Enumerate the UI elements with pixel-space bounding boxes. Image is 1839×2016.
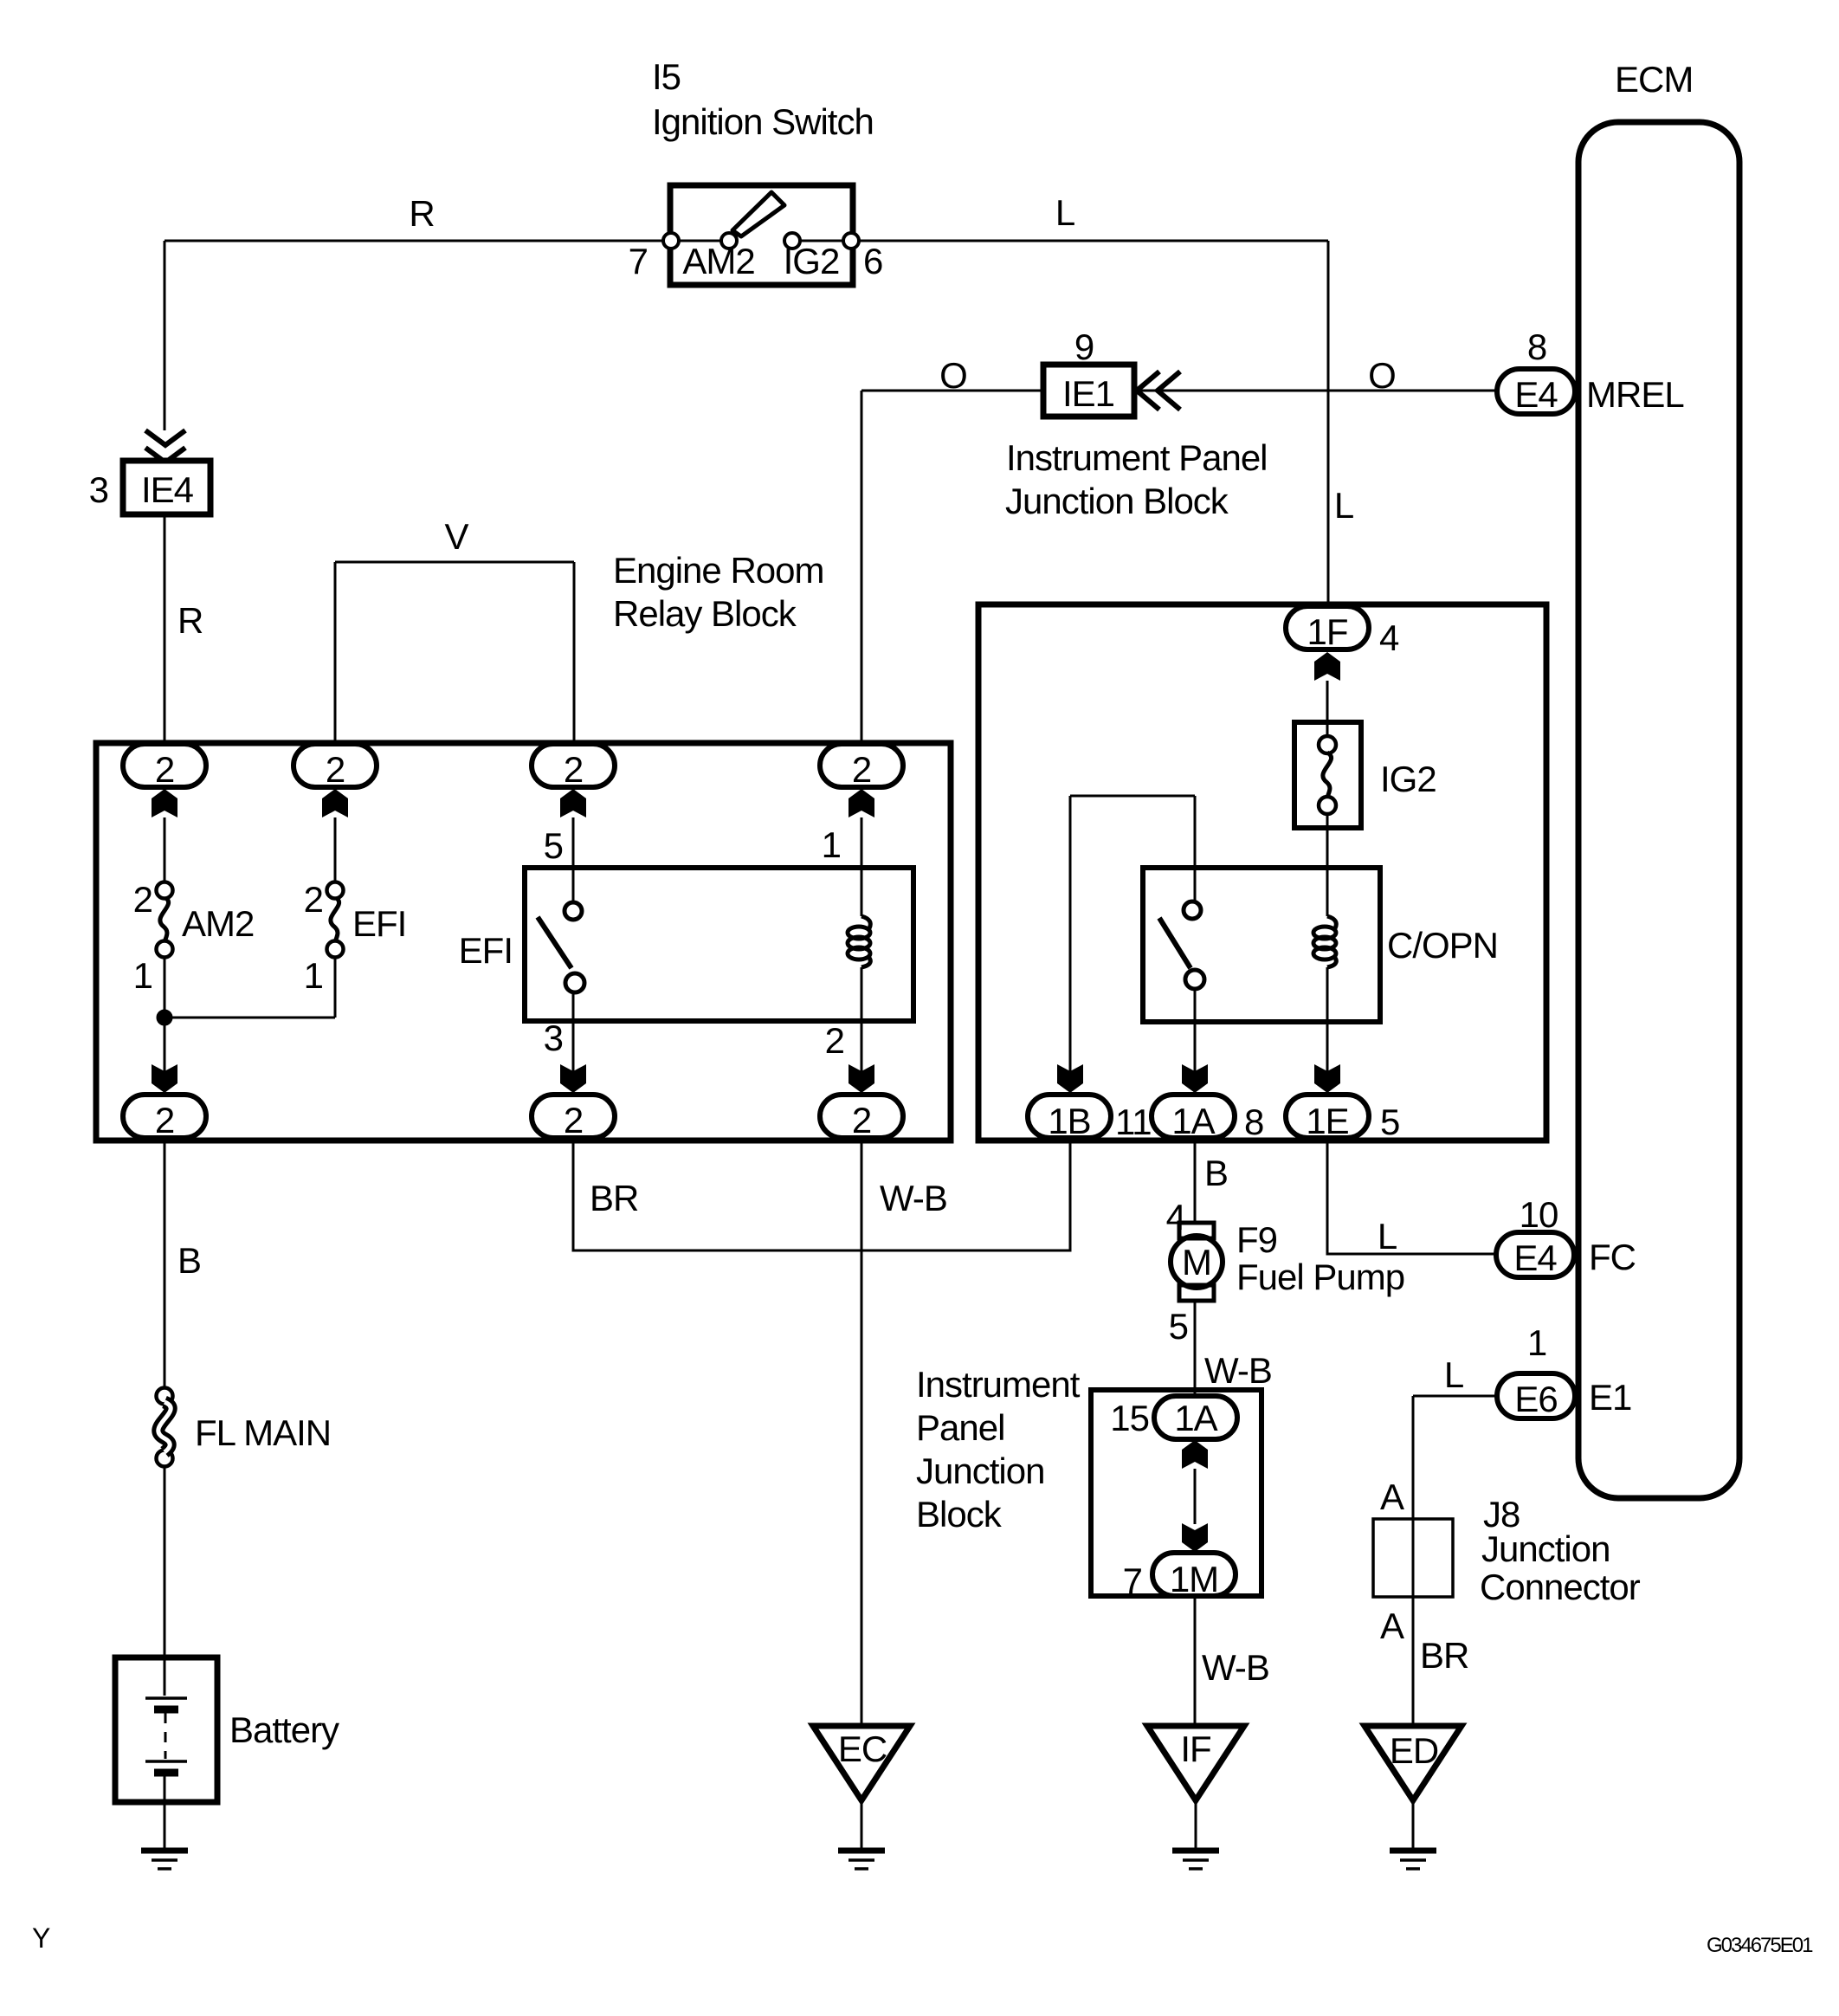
svg-text:2: 2: [155, 749, 174, 790]
arrow up col3: [560, 789, 586, 817]
svg-text:Connector: Connector: [1480, 1567, 1641, 1607]
svg-text:Relay Block: Relay Block: [613, 593, 797, 634]
ground triangle IF: [1147, 1726, 1244, 1800]
svg-text:1M: 1M: [1170, 1559, 1218, 1599]
wire IF to ground: [1195, 1800, 1197, 1848]
relay C/OPN coil: [1313, 916, 1336, 967]
svg-text:A: A: [1380, 1606, 1404, 1646]
pin oval E6 E1: [1497, 1373, 1575, 1418]
ignition switch I5 box: [670, 185, 853, 285]
fuse EFI terminal 1: [327, 941, 344, 958]
svg-text:Junction: Junction: [1481, 1528, 1610, 1569]
svg-text:L: L: [1334, 485, 1353, 526]
svg-text:1: 1: [133, 955, 152, 996]
svg-text:IF: IF: [1180, 1728, 1210, 1769]
svg-text:Battery: Battery: [229, 1709, 339, 1750]
wire O from IE1 to ECM MREL: [1134, 390, 1497, 392]
fuse EFI terminal 2: [327, 882, 344, 899]
svg-text:I5: I5: [652, 56, 681, 97]
wire A through J8: [1412, 1519, 1415, 1597]
svg-text:2: 2: [852, 749, 871, 790]
pin oval E4 FC: [1496, 1232, 1574, 1277]
svg-text:BR: BR: [590, 1178, 638, 1218]
fuse IG2 terminal bottom: [1319, 797, 1336, 814]
wire L E1 to J8: [1413, 1396, 1497, 1519]
wire L 1E to ECM FC: [1327, 1138, 1496, 1254]
wire R from IE4 riser to ignition switch: [165, 240, 670, 242]
arrow up below 1A lower: [1182, 1440, 1208, 1469]
pin oval 2 top col1: [123, 744, 206, 787]
pin oval 2 top col2: [294, 744, 377, 787]
svg-text:IG2: IG2: [784, 241, 840, 281]
svg-text:2: 2: [564, 749, 583, 790]
arrow down col4: [849, 1064, 874, 1093]
svg-text:9: 9: [1074, 326, 1094, 367]
svg-text:3: 3: [544, 1018, 563, 1058]
svg-text:W-B: W-B: [880, 1178, 947, 1218]
svg-text:1A: 1A: [1171, 1101, 1215, 1141]
engine room relay block box: [96, 743, 951, 1140]
wire BR jumper to 1B: [573, 1138, 1070, 1250]
pin oval 1M lower block: [1152, 1553, 1236, 1596]
relay EFI contact top: [565, 902, 582, 920]
svg-text:A: A: [1380, 1476, 1404, 1517]
pin oval 2 bottom col1: [123, 1095, 206, 1138]
arrow up col2: [322, 789, 348, 817]
svg-text:Instrument: Instrument: [916, 1364, 1081, 1405]
fuel pump F9 bottom terminal: [1179, 1285, 1214, 1301]
svg-text:Ignition Switch: Ignition Switch: [652, 101, 874, 142]
ground triangle ED: [1365, 1726, 1462, 1800]
arrow down above 1B: [1057, 1064, 1083, 1093]
svg-text:ECM: ECM: [1615, 59, 1693, 100]
svg-text:AM2: AM2: [182, 903, 254, 944]
wire R riser down-left: [164, 241, 166, 430]
wire inside ignition switch IG2 side: [800, 240, 843, 242]
svg-text:2: 2: [133, 879, 152, 920]
relay C/OPN contact wire to 1A: [1194, 989, 1197, 1095]
svg-text:FL MAIN: FL MAIN: [195, 1412, 331, 1453]
fuse AM2 wires: [164, 817, 166, 1095]
arrow down col3: [560, 1064, 586, 1093]
fuse IG2 wave: [1323, 753, 1332, 798]
svg-text:IG2: IG2: [1380, 759, 1436, 799]
pin oval 2 bottom col4: [820, 1095, 903, 1138]
svg-text:W-B: W-B: [1202, 1647, 1269, 1688]
svg-text:R: R: [409, 193, 434, 234]
fuse AM2 wave: [160, 897, 169, 942]
ground symbol EC: [838, 1851, 885, 1869]
connector chevrons above IE4: [145, 430, 185, 462]
svg-text:7: 7: [629, 241, 648, 281]
fusible link FL MAIN heavy wave: [158, 1402, 171, 1452]
instrument panel junction block right box: [978, 604, 1546, 1140]
wire FL MAIN to battery: [164, 1467, 166, 1657]
svg-text:7: 7: [1123, 1560, 1142, 1601]
relay EFI box: [525, 868, 913, 1021]
svg-text:MREL: MREL: [1586, 374, 1684, 415]
svg-text:15: 15: [1110, 1398, 1149, 1438]
battery plate 1 long: [145, 1696, 187, 1700]
wire inside ignition switch AM2 side: [679, 240, 721, 242]
relay EFI blade: [538, 917, 571, 968]
svg-text:Fuel Pump: Fuel Pump: [1236, 1257, 1404, 1297]
relay C/OPN box: [1143, 868, 1380, 1022]
svg-text:C/OPN: C/OPN: [1387, 925, 1498, 966]
fuse AM2 terminal 1: [157, 941, 173, 958]
svg-text:Block: Block: [916, 1494, 1003, 1535]
wire W-B fuel pump to 1A: [1194, 1301, 1197, 1396]
svg-text:2: 2: [304, 879, 323, 920]
ignition switch terminal AM2: [721, 233, 737, 249]
relay EFI contact bottom: [565, 973, 584, 992]
relay EFI coil: [848, 916, 870, 967]
svg-text:E1: E1: [1589, 1377, 1631, 1418]
arrow down above 1A: [1182, 1064, 1208, 1093]
svg-text:10: 10: [1520, 1194, 1558, 1235]
svg-text:L: L: [1378, 1216, 1397, 1257]
svg-text:Instrument Panel: Instrument Panel: [1006, 437, 1268, 478]
svg-text:Junction Block: Junction Block: [1005, 481, 1229, 521]
svg-text:2: 2: [155, 1100, 174, 1140]
svg-text:EFI: EFI: [352, 903, 406, 944]
battery plate 2 short: [154, 1769, 178, 1777]
svg-text:AM2: AM2: [682, 241, 754, 281]
arrow up col1: [152, 789, 177, 817]
relay C/OPN contact bottom: [1185, 970, 1204, 989]
wire V jumper: [335, 562, 574, 744]
relay C/OPN coil wire to 1E: [1326, 967, 1329, 1095]
pin oval 2 top col3: [532, 744, 615, 787]
svg-text:8: 8: [1527, 326, 1546, 367]
svg-text:11: 11: [1115, 1102, 1152, 1142]
svg-text:Panel: Panel: [916, 1407, 1004, 1448]
battery plate 1 short: [154, 1706, 178, 1714]
svg-text:Engine Room: Engine Room: [613, 550, 823, 591]
svg-text:BR: BR: [1420, 1635, 1468, 1676]
ignition switch lever: [732, 192, 784, 236]
svg-text:Y: Y: [32, 1922, 50, 1954]
svg-text:ED: ED: [1390, 1730, 1438, 1771]
pin oval E4 MREL: [1497, 369, 1575, 414]
ground symbol ED: [1390, 1851, 1436, 1869]
battery box: [115, 1657, 217, 1802]
battery dashed center: [165, 1713, 167, 1759]
fuel pump F9 top terminal: [1179, 1223, 1214, 1238]
svg-text:F9: F9: [1236, 1219, 1277, 1260]
fuse EFI wave: [331, 897, 339, 942]
wire R below IE4: [164, 514, 166, 745]
wire between 1A and 1M: [1194, 1469, 1197, 1524]
arrow down col1: [152, 1064, 177, 1093]
battery plate 2 long: [145, 1760, 187, 1763]
svg-text:4: 4: [1379, 617, 1399, 658]
svg-text:1A: 1A: [1174, 1398, 1217, 1438]
wire B 1A to fuel pump: [1194, 1138, 1197, 1223]
svg-text:FC: FC: [1589, 1237, 1636, 1277]
wire 1F to IG2 fuse: [1326, 681, 1329, 736]
wire EFI fuse to junction dot: [165, 1017, 335, 1019]
connector IE4 box: [123, 461, 210, 514]
svg-text:2: 2: [564, 1100, 583, 1140]
pin oval 2 top col4: [820, 744, 903, 787]
relay EFI coil wires: [861, 817, 863, 1095]
pin oval 1A: [1152, 1095, 1235, 1138]
svg-text:5: 5: [1380, 1102, 1399, 1142]
wire BR J8 to ED ground: [1412, 1597, 1415, 1725]
svg-text:G034675E01: G034675E01: [1707, 1934, 1813, 1957]
relay C/OPN inner wire to 1B: [1070, 796, 1195, 1095]
ground symbol IF: [1172, 1851, 1219, 1869]
svg-text:EC: EC: [838, 1728, 887, 1769]
junction connector J8 box: [1373, 1519, 1453, 1597]
svg-text:M: M: [1182, 1242, 1211, 1283]
battery internal wire top: [164, 1657, 166, 1696]
arrow up below 1F: [1314, 652, 1340, 681]
svg-text:1B: 1B: [1048, 1101, 1090, 1141]
ignition switch terminal 7: [663, 233, 679, 249]
fusible link FL MAIN terminal top: [157, 1388, 173, 1405]
ECM box: [1578, 122, 1739, 1498]
svg-text:2: 2: [326, 749, 345, 790]
svg-text:8: 8: [1244, 1102, 1263, 1142]
svg-text:B: B: [1204, 1153, 1228, 1193]
fuse EFI wires: [334, 817, 337, 1018]
junction dot below AM2: [158, 1011, 171, 1024]
pin oval 1B: [1028, 1095, 1111, 1138]
svg-text:5: 5: [544, 825, 563, 866]
svg-text:5: 5: [1169, 1306, 1188, 1347]
svg-text:E6: E6: [1514, 1379, 1557, 1419]
svg-text:R: R: [177, 600, 203, 641]
wire O from relay block to IE1: [861, 391, 1043, 744]
arrow up col4: [849, 789, 874, 817]
wire EC to ground: [861, 1800, 863, 1848]
svg-text:2: 2: [852, 1100, 871, 1140]
relay EFI contact wires: [572, 817, 575, 1095]
relay C/OPN contact top: [1184, 901, 1201, 919]
svg-text:Junction: Junction: [916, 1451, 1044, 1491]
svg-text:1E: 1E: [1306, 1101, 1348, 1141]
wire IG2 to C/OPN coil: [1326, 814, 1329, 916]
instrument panel junction block lower box: [1091, 1390, 1261, 1596]
wire B relay block to FL MAIN: [164, 1138, 166, 1387]
fusible link FL MAIN terminal bottom: [157, 1451, 173, 1467]
wire W-B to EC ground: [861, 1138, 863, 1725]
svg-text:E4: E4: [1514, 374, 1558, 415]
svg-text:1F: 1F: [1307, 611, 1347, 652]
svg-text:2: 2: [825, 1020, 844, 1061]
svg-text:3: 3: [89, 469, 108, 510]
pin oval 1A lower block: [1154, 1396, 1237, 1439]
svg-text:EFI: EFI: [459, 930, 513, 971]
svg-text:1: 1: [1527, 1322, 1546, 1363]
pin oval 1F: [1286, 606, 1369, 649]
svg-text:W-B: W-B: [1204, 1350, 1272, 1391]
wire L from ignition switch to 1F column: [859, 241, 1328, 606]
arrow down above 1E: [1314, 1064, 1340, 1093]
pin oval 2 bottom col3: [532, 1095, 615, 1138]
relay C/OPN blade: [1159, 918, 1191, 968]
svg-text:L: L: [1444, 1354, 1463, 1395]
svg-text:O: O: [1368, 355, 1396, 396]
ignition switch terminal IG2: [784, 233, 800, 249]
svg-text:E4: E4: [1513, 1237, 1557, 1278]
svg-text:6: 6: [863, 241, 882, 281]
arrow down above 1M: [1182, 1523, 1208, 1552]
connector chevrons right of IE1: [1137, 372, 1180, 410]
wire battery to ground: [164, 1776, 166, 1848]
connector IE1 box: [1043, 365, 1134, 417]
svg-text:IE4: IE4: [141, 469, 194, 510]
ground triangle EC: [813, 1726, 910, 1800]
svg-text:IE1: IE1: [1062, 373, 1114, 414]
svg-text:O: O: [939, 355, 967, 396]
svg-text:V: V: [444, 516, 468, 557]
fuse IG2 terminal top: [1319, 736, 1336, 753]
svg-text:1: 1: [822, 824, 841, 865]
ground symbol battery: [141, 1851, 188, 1869]
fuse AM2 terminal 2: [157, 882, 173, 899]
pin oval 1E: [1286, 1095, 1369, 1138]
wire ED to ground: [1412, 1800, 1415, 1848]
ignition switch terminal 6: [843, 233, 859, 249]
svg-text:L: L: [1055, 192, 1074, 233]
svg-text:1: 1: [304, 955, 323, 996]
fuse IG2 box: [1294, 722, 1361, 828]
svg-text:B: B: [177, 1240, 201, 1281]
fuel pump F9 motor: [1171, 1236, 1223, 1288]
wire W-B 1M to IF ground: [1194, 1596, 1197, 1725]
svg-text:4: 4: [1166, 1197, 1186, 1237]
